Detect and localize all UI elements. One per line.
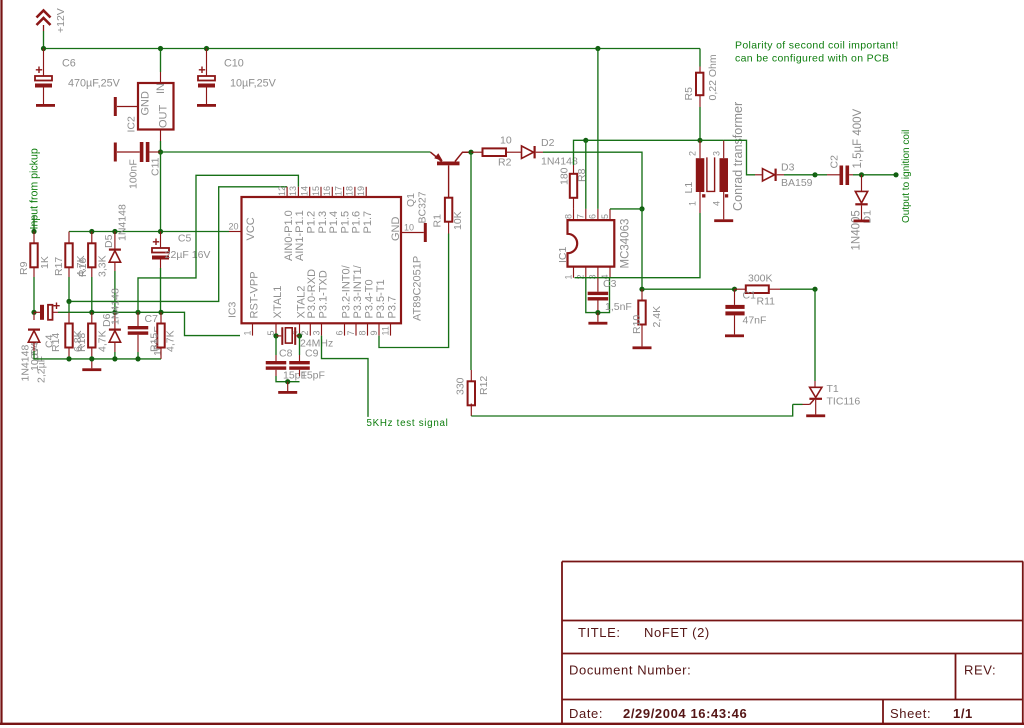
ground GND below T1 — [806, 414, 825, 417]
svg-text:AIN0-P1.0: AIN0-P1.0 — [283, 210, 295, 261]
svg-text:C8: C8 — [279, 348, 293, 360]
wire C8 top wire — [275, 336, 277, 355]
resistor R5 — [683, 54, 719, 100]
wire IC1 pin 7 stub (pin lead) — [585, 209, 587, 220]
node row/R15 (junction) — [158, 310, 163, 315]
svg-text:P3.7: P3.7 — [386, 296, 398, 319]
resistor R2 — [483, 135, 512, 169]
svg-text:14: 14 — [300, 186, 310, 196]
note polarity — [735, 40, 899, 65]
svg-text:AIN1-P1.1: AIN1-P1.1 — [294, 210, 306, 261]
IC AT89C2051 IC3 — [227, 197, 424, 323]
svg-text:T1: T1 — [827, 383, 839, 395]
wire comp row left — [642, 288, 735, 290]
wire C9 bottom lead (pin lead) — [299, 370, 301, 376]
wire R12 to T1 gate wire — [471, 404, 792, 416]
svg-text:10K: 10K — [452, 211, 464, 230]
node rail/C10 (junction) — [204, 46, 209, 51]
node R11/T1 node (junction) — [812, 287, 817, 292]
wire rail to IC1 pin6 — [597, 49, 599, 209]
wire C3 top lead (pin lead) — [597, 278, 599, 292]
svg-text:100nF: 100nF — [128, 159, 140, 189]
wire C7 to ground row — [137, 352, 139, 359]
wire R14 bottom lead (pin lead) — [68, 348, 70, 359]
svg-text:IC2: IC2 — [126, 116, 138, 133]
wire IC1 pin 4 stub (pin lead) — [609, 267, 611, 278]
wire C10 bottom lead (pin lead) — [206, 88, 208, 105]
wire IC3 pin 16 stub (pin lead) — [331, 187, 333, 197]
svg-text:GND: GND — [390, 217, 402, 242]
svg-text:1N4148: 1N4148 — [20, 345, 32, 382]
wire rail corner to R5 — [699, 49, 701, 67]
frame bottom border — [0, 723, 1024, 725]
svg-text:P3.2-INT0/: P3.2-INT0/ — [340, 264, 352, 318]
wire IC3 pin 13 stub (pin lead) — [297, 187, 299, 197]
capacitor C3 — [588, 292, 609, 301]
wire IC1 pin 5 stub (pin lead) — [609, 209, 611, 220]
svg-text:16: 16 — [322, 186, 332, 196]
wire R14 top wire — [68, 301, 70, 312]
wire T1 gate wire — [793, 403, 803, 405]
svg-text:10: 10 — [500, 135, 512, 147]
svg-text:P1.4: P1.4 — [328, 211, 340, 234]
svg-text:R1: R1 — [432, 214, 444, 228]
node gndrow/R18 (junction) — [89, 356, 94, 361]
svg-text:IC1: IC1 — [557, 247, 569, 264]
wire output wire — [862, 174, 897, 176]
node VCC/C5 (junction) — [158, 229, 163, 234]
wire R11 left lead (pin lead) — [735, 288, 746, 290]
wire R10 bottom lead (pin lead) — [641, 325, 643, 347]
wire C5 down to C4 row — [160, 268, 162, 312]
wire IC3 pin 2 stub (pin lead) — [309, 323, 311, 335]
wire C6 top lead (pin lead) — [43, 49, 45, 77]
svg-text:1: 1 — [563, 274, 573, 279]
wire IC3 pin 17 stub (pin lead) — [343, 187, 345, 197]
wire L1 node to pin3 — [700, 139, 724, 141]
wire IC1 pin 2 stub (pin lead) — [585, 267, 587, 278]
wire Q1 node down to R12 — [470, 152, 472, 370]
svg-text:C2: C2 — [829, 155, 841, 169]
wire crystal left lead (pin lead) — [276, 335, 281, 337]
wire R12 bottom lead (pin lead) — [470, 404, 472, 417]
wire IC3 pin 5 stub (pin lead) — [275, 323, 277, 335]
svg-text:XTAL1: XTAL1 — [272, 286, 284, 319]
svg-text:R9: R9 — [18, 261, 30, 275]
wire comp node down — [641, 209, 643, 289]
wire L1 pin4 lead (pin lead) — [723, 192, 725, 219]
svg-text:C9: C9 — [305, 348, 319, 360]
wire R5 bottom lead (pin lead) — [699, 95, 701, 107]
wire L1 pin1 lead (pin lead) — [699, 192, 701, 213]
svg-text:R11: R11 — [757, 296, 776, 308]
wire R8 bottom lead (pin lead) — [573, 197, 575, 209]
svg-text:R5: R5 — [683, 87, 695, 101]
svg-text:10µF,25V: 10µF,25V — [230, 78, 277, 90]
supply +12V symbol — [37, 8, 68, 48]
wire D3 to C2 node — [784, 174, 815, 176]
ground GND below C3 — [588, 322, 607, 325]
svg-text:8: 8 — [357, 330, 367, 335]
svg-text:180: 180 — [559, 167, 571, 185]
svg-text:1N4148: 1N4148 — [110, 288, 122, 325]
svg-text:2: 2 — [688, 151, 698, 156]
wire D5 top lead (pin lead) — [114, 232, 116, 249]
svg-text:7: 7 — [346, 330, 356, 335]
capacitor C8 — [266, 361, 287, 370]
svg-text:2,4K: 2,4K — [651, 306, 663, 328]
svg-text:3: 3 — [311, 330, 321, 335]
wire D1 top lead (pin lead) — [861, 175, 863, 192]
svg-text:MC34063: MC34063 — [620, 219, 632, 269]
wire IC2 OUT to node — [160, 141, 162, 152]
svg-text:R15: R15 — [149, 333, 161, 352]
node VCC/D5 (junction) — [112, 229, 117, 234]
node R9/D4/C4 (junction) — [31, 310, 36, 315]
resistor R11 — [743, 273, 776, 308]
node gndrow/D6 (junction) — [112, 356, 117, 361]
diode D4 — [28, 329, 40, 343]
node switch node (junction) — [583, 138, 588, 143]
svg-text:7: 7 — [576, 214, 586, 219]
wire T1 anode wire — [814, 289, 816, 381]
wire D6 top lead (pin lead) — [114, 312, 116, 328]
thyristor T1 TIC116 — [809, 383, 860, 408]
svg-text:1K: 1K — [39, 256, 51, 269]
svg-text:3: 3 — [588, 274, 598, 279]
wire C5 top lead (pin lead) — [160, 232, 162, 249]
wire D4 top lead (pin lead) — [33, 312, 35, 320]
wire C9 top lead (pin lead) — [299, 355, 301, 361]
wire D1 bottom lead (pin lead) — [861, 205, 863, 219]
wire IC1 pin 8 stub (pin lead) — [573, 209, 575, 220]
diode D5 — [109, 249, 121, 263]
svg-text:1N4148: 1N4148 — [541, 156, 578, 168]
wire L1 pin2 lead (pin lead) — [699, 140, 701, 158]
ground GND below R18 — [82, 368, 101, 371]
capacitor C1 — [725, 305, 766, 327]
wire D2 out to IC1 pin5 node — [543, 152, 642, 209]
wire C8 bottom lead (pin lead) — [275, 370, 277, 376]
svg-text:4,7K: 4,7K — [165, 330, 177, 352]
svg-text:RST-VPP: RST-VPP — [248, 271, 260, 318]
svg-text:2/29/2004 16:43:46: 2/29/2004 16:43:46 — [623, 706, 747, 721]
svg-text:C11: C11 — [150, 157, 162, 176]
svg-text:330: 330 — [455, 377, 467, 395]
node row/R18 (junction) — [89, 310, 94, 315]
wire comp row right — [780, 288, 815, 290]
wire IC3 pin 4 stub (pin lead) — [299, 323, 301, 335]
wire bottom ground row — [34, 351, 161, 359]
wire D6 bottom lead (pin lead) — [114, 342, 116, 352]
svg-text:D2: D2 — [541, 137, 555, 149]
svg-text:1: 1 — [688, 201, 698, 206]
svg-text:TITLE:: TITLE: — [578, 625, 621, 640]
wire C4 row / RST net — [58, 312, 240, 335]
wire C3 gnd lead (pin lead) — [597, 313, 599, 322]
ground GND below D1 — [854, 220, 870, 223]
node VCC/R16 (junction) — [89, 229, 94, 234]
diode D3 — [763, 169, 777, 181]
wire IC3 pin 1 stub (pin lead) — [252, 323, 254, 335]
wire R9 top lead (pin lead) — [33, 232, 35, 244]
wire R2 right lead (pin lead) — [506, 151, 522, 153]
wire C7 bottom lead (pin lead) — [137, 335, 139, 352]
wire switch node to L1 — [586, 139, 700, 141]
wire C5 bottom lead (pin lead) — [160, 260, 162, 269]
node C3 gnd node (junction) — [595, 310, 600, 315]
svg-text:19: 19 — [356, 186, 366, 196]
svg-text:C7: C7 — [145, 313, 159, 325]
svg-text:R16: R16 — [77, 258, 89, 277]
wire IC3 pin 12 stub (pin lead) — [286, 187, 288, 197]
svg-text:P1.2: P1.2 — [306, 211, 318, 234]
wire D3 anode lead (pin lead) — [755, 174, 763, 176]
wire T1 anode lead (pin lead) — [814, 381, 816, 387]
wire C2 left lead (pin lead) — [827, 174, 840, 176]
svg-text:9: 9 — [369, 330, 379, 335]
wire R8 to switch node — [574, 140, 586, 165]
wire 5V rail to Q1 — [161, 151, 431, 153]
wire R14 top lead (pin lead) — [68, 313, 70, 324]
svg-text:1,5µF 400V: 1,5µF 400V — [852, 108, 864, 168]
wire IC3 pin 20 (pin lead) — [229, 231, 242, 233]
wire R10 top lead (pin lead) — [641, 289, 643, 300]
crystal Q2 24MHz — [282, 327, 333, 349]
wire D6 to ground row — [114, 352, 116, 359]
capacitor C6 — [35, 67, 52, 88]
wire pin9 to R1 net — [379, 234, 449, 348]
svg-text:IC3: IC3 — [227, 302, 239, 319]
wire IC3 pin 9 stub (pin lead) — [378, 323, 380, 335]
wire R17 to netB — [68, 277, 70, 301]
title block text — [569, 625, 996, 721]
ground GND below C8/C9 — [278, 391, 297, 394]
resistor R12 — [455, 376, 491, 406]
wire R12 top lead (pin lead) — [470, 370, 472, 381]
resistor R9 — [18, 243, 51, 275]
wire C4 left lead (pin lead) — [34, 311, 40, 313]
capacitor C11 — [128, 142, 162, 189]
wire R9 bottom lead (pin lead) — [33, 267, 35, 277]
svg-text:10: 10 — [404, 223, 414, 233]
wire crystal gnd wire — [276, 376, 300, 382]
svg-text:1,5nF: 1,5nF — [605, 301, 632, 313]
svg-text:6: 6 — [588, 214, 598, 219]
capacitor C7 — [128, 326, 149, 335]
wire IC3 pin 14 stub (pin lead) — [309, 187, 311, 197]
wire IC2 IN pin (pin lead) — [160, 72, 162, 83]
wire D4 bottom lead (pin lead) — [33, 342, 35, 351]
svg-text:6: 6 — [334, 330, 344, 335]
ground GND below C10 — [197, 104, 216, 107]
svg-text:VCC: VCC — [245, 217, 257, 240]
svg-text:P1.6: P1.6 — [351, 211, 363, 234]
wire R1 bottom lead (pin lead) — [448, 221, 450, 234]
wire IC1 pin1 to L1 pin1 — [575, 213, 701, 278]
wire R16 top lead (pin lead) — [91, 232, 93, 244]
svg-text:C3: C3 — [603, 278, 617, 290]
resistor R14 — [50, 324, 84, 353]
node VREG OUT node (junction) — [158, 149, 163, 154]
IC MC34063 IC1 — [557, 219, 632, 269]
wire R15 bottom lead (pin lead) — [160, 348, 162, 359]
wire C2 right lead (pin lead) — [849, 174, 853, 176]
node row/D6 (junction) — [112, 310, 117, 315]
wire R15 top lead (pin lead) — [160, 312, 162, 323]
node C2/D1 node (junction) — [859, 172, 864, 177]
transistor Q1 BC327 — [405, 152, 471, 223]
capacitor C4 — [29, 303, 60, 384]
svg-text:2: 2 — [576, 274, 586, 279]
svg-text:can be configured with on PCB: can be configured with on PCB — [735, 53, 889, 65]
svg-text:1/1: 1/1 — [953, 706, 973, 721]
wire switch node to pin7 — [585, 140, 587, 209]
wire net AIN1 to pin13 — [138, 175, 298, 312]
svg-text:17: 17 — [333, 186, 343, 196]
wire C11 right lead (pin lead) — [149, 151, 160, 153]
svg-text:11: 11 — [380, 326, 390, 335]
svg-text:D3: D3 — [781, 162, 795, 174]
svg-text:15pF: 15pF — [301, 370, 325, 382]
resistor R8 — [559, 167, 589, 197]
svg-text:5: 5 — [600, 214, 610, 219]
capacitor C9 — [289, 361, 310, 370]
svg-text:P1.3: P1.3 — [317, 211, 329, 234]
wire C1 top lead (pin lead) — [734, 289, 736, 305]
wire IC3 pin 10 (pin lead) — [401, 232, 424, 234]
svg-text:15: 15 — [311, 186, 321, 196]
wire R2 left lead (pin lead) — [471, 151, 483, 153]
wire C6 bottom lead (pin lead) — [43, 88, 45, 105]
wire R16 down to C4 row — [91, 277, 93, 312]
node L1 node (junction) — [697, 138, 702, 143]
node R17/R14 netB (junction) — [66, 299, 71, 304]
svg-text:4,7K: 4,7K — [97, 330, 109, 352]
svg-text:1N4148: 1N4148 — [117, 204, 129, 241]
wire 5KHz test signal net — [322, 336, 369, 417]
wire R17 top lead (pin lead) — [68, 232, 70, 244]
wire C3 bottom lead (pin lead) — [597, 301, 599, 313]
svg-text:P3.3-INT1/: P3.3-INT1/ — [352, 264, 364, 318]
node rail/IC1 VCC (junction) — [595, 46, 600, 51]
svg-text:Polarity of second coil import: Polarity of second coil important! — [735, 40, 899, 52]
capacitor C5 — [152, 239, 169, 260]
frame left border — [0, 0, 2, 724]
wire R9 to D4 node — [33, 277, 35, 312]
svg-text:C10: C10 — [224, 58, 244, 70]
svg-text:BA159: BA159 — [781, 177, 813, 189]
svg-text:C6: C6 — [62, 58, 76, 70]
IC2 voltage regulator — [126, 83, 174, 133]
wire T1 cathode lead (pin lead) — [815, 400, 817, 415]
svg-text:Q1: Q1 — [405, 193, 417, 207]
wire D3 cathode lead (pin lead) — [777, 174, 784, 176]
wire R16 bottom lead (pin lead) — [91, 267, 93, 277]
wire IC3 pin 7 stub (pin lead) — [355, 323, 357, 335]
capacitor C10 — [198, 67, 215, 88]
wire IC3 pin 15 stub (pin lead) — [320, 187, 322, 197]
diode D1 — [855, 191, 867, 205]
wire R5 top lead (pin lead) — [699, 67, 701, 73]
resistor R16 — [77, 243, 109, 277]
title block frame — [562, 562, 1023, 724]
wire R5 to L1 node — [699, 107, 701, 140]
wire R18 top lead (pin lead) — [91, 312, 93, 323]
wire +12V rail — [44, 48, 701, 50]
wire D2 cathode lead (pin lead) — [536, 151, 543, 153]
wire C9 top wire — [299, 336, 301, 355]
svg-text:P3.1-TXD: P3.1-TXD — [317, 270, 329, 318]
svg-text:D5: D5 — [103, 234, 115, 248]
wire C11 node down to VCC row — [160, 152, 162, 232]
diode D2 — [522, 146, 536, 158]
node comp/R10/R11 (junction) — [639, 287, 644, 292]
ground GND below C6 — [36, 104, 55, 107]
wire pin2/pin4 gnd wire — [586, 278, 610, 313]
diode D6 — [109, 329, 121, 343]
wire D5 down to C4 row — [114, 271, 116, 312]
svg-text:4: 4 — [712, 201, 722, 206]
wire IC3 pin 3 stub (pin lead) — [321, 323, 323, 335]
ground GND below R10 — [633, 346, 652, 349]
svg-text:470µF,25V: 470µF,25V — [68, 78, 121, 90]
ground GND at IC3 pin10 (rotated) — [424, 223, 427, 242]
resistor R15 — [149, 324, 177, 353]
wire pin3 to D3 — [724, 140, 755, 175]
wire IC2 GND pin (pin lead) — [117, 106, 138, 108]
transformer L1 — [683, 102, 745, 211]
svg-text:P1.5: P1.5 — [339, 211, 351, 234]
svg-text:P3.5-T1: P3.5-T1 — [375, 279, 387, 318]
wire IC3 pin 11 stub (pin lead) — [390, 323, 392, 335]
svg-text:R17: R17 — [53, 257, 65, 276]
wire pin5 to comp node — [610, 208, 642, 210]
svg-text:TIC116: TIC116 — [827, 396, 861, 408]
svg-text:3: 3 — [712, 151, 722, 156]
svg-text:P3.0-RXD: P3.0-RXD — [306, 269, 318, 319]
resistor R10 — [631, 301, 663, 335]
wire R18 bottom lead (pin lead) — [91, 348, 93, 359]
wire C2 to out node — [853, 174, 862, 176]
svg-text:R2: R2 — [498, 157, 512, 169]
node pin5/crystal (junction) — [273, 333, 278, 338]
svg-text:22µF 16V: 22µF 16V — [165, 249, 211, 261]
wire input stub — [33, 216, 35, 232]
svg-text:OUT: OUT — [158, 105, 170, 129]
svg-text:Conrad transformer: Conrad transformer — [731, 102, 745, 211]
wire IC3 pin 6 stub (pin lead) — [344, 323, 346, 335]
svg-text:AT89C2051P: AT89C2051P — [412, 256, 424, 321]
node Q1 coll/R2/R12 (junction) — [468, 150, 473, 155]
svg-text:P3.4-T0: P3.4-T0 — [363, 279, 375, 318]
wire C11 left lead (pin lead) — [117, 151, 140, 153]
wire VCC row wire — [69, 231, 229, 233]
node rail/+12V stub (junction) — [41, 46, 46, 51]
node C1/R11 node (junction) — [732, 287, 737, 292]
svg-text:20: 20 — [229, 222, 239, 232]
svg-text:Output to ignition coil: Output to ignition coil — [901, 130, 912, 223]
ground GND at IC2 (rotated) — [114, 97, 117, 116]
svg-text:8: 8 — [563, 214, 573, 219]
wire IC1 pin 3 stub (pin lead) — [597, 267, 599, 278]
wire IC3 pin 18 stub (pin lead) — [354, 187, 356, 197]
svg-text:P1.7: P1.7 — [362, 211, 374, 234]
wire IC1 pin 1 stub (pin lead) — [573, 267, 575, 278]
wire crystal right lead (pin lead) — [296, 335, 299, 337]
wire R18 gnd lead (pin lead) — [91, 359, 93, 368]
svg-text:REV:: REV: — [964, 663, 996, 678]
